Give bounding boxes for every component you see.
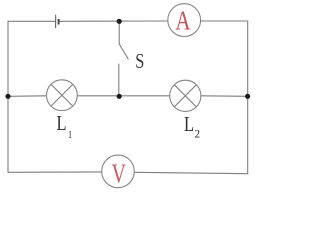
label L1 — [56, 112, 72, 141]
svg-text:V: V — [112, 160, 126, 190]
svg-text:L: L — [56, 112, 66, 135]
junction node middle-right — [245, 94, 250, 99]
wire battery to ammeter — [59, 20, 167, 22]
lamp L2 cross — [174, 85, 196, 107]
ammeter letter A — [175, 6, 191, 36]
wire left vertical — [7, 21, 9, 172]
svg-text:1: 1 — [68, 129, 72, 141]
svg-text:2: 2 — [195, 128, 201, 141]
svg-text:A: A — [175, 6, 191, 36]
battery short plate (-) — [58, 19, 60, 25]
ammeter U-A circle — [168, 4, 201, 37]
wire bottom-left segment (corner to voltmeter) — [8, 171, 102, 173]
junction node middle-left — [5, 94, 10, 99]
voltmeter letter V — [112, 160, 126, 190]
voltmeter U-V circle — [102, 155, 135, 188]
wire switch upper vertical — [118, 21, 120, 44]
wire top-left segment (left corner to battery) — [8, 20, 55, 22]
battery cell — [56, 15, 59, 28]
wire switch lower vertical — [118, 64, 120, 96]
switch S blade (open) — [119, 44, 128, 59]
wire lamp L1 to lamp L2 — [77, 95, 169, 97]
junction node middle (switch/middle wire) — [117, 94, 122, 99]
lamp L1 cross — [51, 84, 73, 106]
wire voltmeter to bottom-right corner — [134, 172, 247, 173]
lamp L2 circle — [170, 80, 201, 111]
wire ammeter to top-right corner — [201, 20, 248, 22]
lamp L1 circle — [47, 80, 78, 111]
svg-text:S: S — [135, 50, 144, 73]
label L2 — [184, 113, 200, 141]
junction node top (switch/top wire) — [117, 19, 122, 24]
wire lamp L2 to right wire — [201, 95, 248, 98]
battery long plate (+) — [55, 15, 57, 28]
wire right vertical — [247, 21, 249, 174]
label S (switch) — [135, 50, 144, 73]
svg-text:L: L — [184, 113, 194, 136]
wire middle-left (left wire to lamp L1) — [8, 95, 47, 98]
